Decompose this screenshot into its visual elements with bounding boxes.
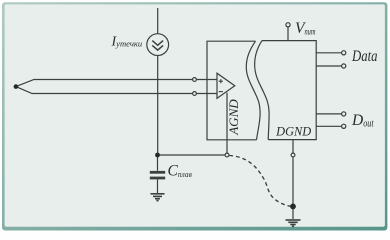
svg-text:AGND: AGND: [227, 99, 241, 136]
svg-text:Data: Data: [351, 48, 377, 65]
svg-text:DGND: DGND: [275, 125, 311, 139]
